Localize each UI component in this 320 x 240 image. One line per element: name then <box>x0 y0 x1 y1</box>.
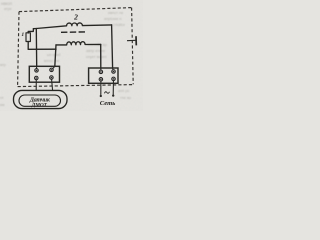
svg-text:апрtowe н: апрtowe н <box>104 17 121 21</box>
svg-text:ивпст ле: ивпст ле <box>108 11 123 15</box>
svg-text:снует вкреп: снует вкреп <box>86 55 107 59</box>
svg-text:1: 1 <box>21 32 24 38</box>
svg-text:ме: ме <box>0 103 5 107</box>
svg-text:авпр егвне: авпр егвне <box>86 49 105 53</box>
svg-text:впр: впр <box>0 63 6 67</box>
svg-text:пт: пт <box>0 96 4 100</box>
svg-text:тпе во: тпе во <box>120 96 131 100</box>
svg-text:стkällor: стkällor <box>113 23 126 27</box>
svg-text:апń рс: апń рс <box>118 89 129 93</box>
svg-text:нвкоп: нвкоп <box>1 1 12 6</box>
svg-text:Сеть: Сеть <box>100 100 115 107</box>
svg-text:ДМОТ: ДМОТ <box>31 102 48 108</box>
svg-text:атре: атре <box>4 7 12 11</box>
svg-text:впгес тне: впгес тне <box>44 59 60 63</box>
svg-text:ып ояаб: ып ояаб <box>47 53 61 57</box>
svg-text:2: 2 <box>73 13 78 22</box>
